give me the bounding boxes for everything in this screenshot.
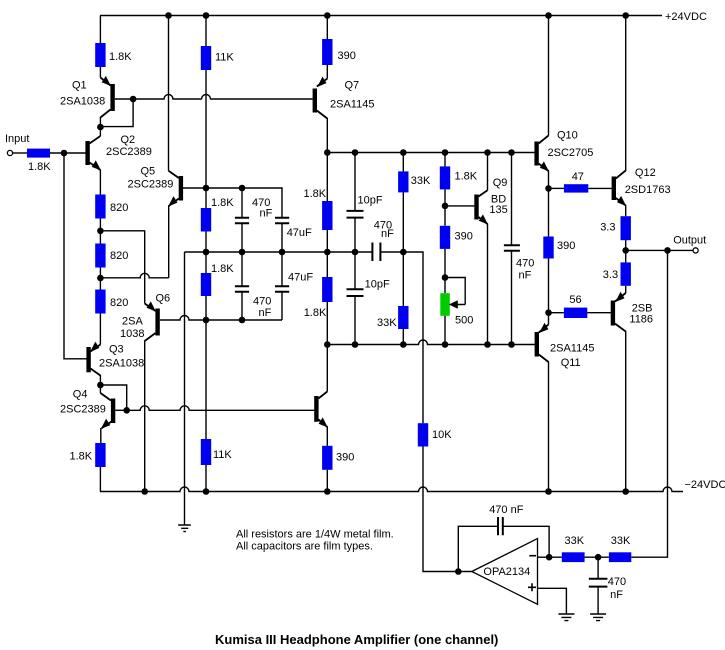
transistor Q9 base bar xyxy=(474,195,478,220)
op-amp U1 OPA2134 triangle xyxy=(472,539,538,605)
node Q1 base tie xyxy=(130,96,137,103)
node Q10 emitter xyxy=(545,185,552,192)
wire node to 56 resistor xyxy=(549,312,564,314)
wire Q6 collector to bottom rail xyxy=(144,341,146,492)
node y152 bus xyxy=(324,149,331,156)
capacitor 470nF lower: stem xyxy=(241,252,243,286)
potentiometer 500 body xyxy=(440,293,450,316)
capacitor 470nF (x511) bottom stem xyxy=(511,251,513,345)
resistor 390 (x445) xyxy=(440,226,450,249)
transistor 2SB1186 base bar xyxy=(611,301,615,326)
wire rail to Q12 collector xyxy=(625,16,627,172)
wire 820 to Q3 emitter xyxy=(99,314,101,345)
wire inverting input xyxy=(538,556,562,558)
svg-text:820: 820 xyxy=(110,297,128,309)
wire Q8 base line with hops xyxy=(127,406,315,411)
svg-text:1.8K: 1.8K xyxy=(211,197,234,209)
svg-text:33K: 33K xyxy=(411,175,431,187)
svg-text:390: 390 xyxy=(455,231,473,243)
svg-text:33K: 33K xyxy=(565,535,585,547)
transistor Q7 base bar xyxy=(313,89,317,113)
capacitor 10pF lower top stem xyxy=(354,252,356,289)
svg-text:10pF: 10pF xyxy=(358,195,383,207)
capacitor 470nF (x511) plates xyxy=(504,245,520,251)
wire 390 to Q7 emitter xyxy=(326,65,328,79)
node Q3 collector xyxy=(97,382,104,389)
wire 33K to mid bus xyxy=(402,192,404,306)
capacitor 470nF upper plates xyxy=(235,218,249,224)
svg-text:nF: nF xyxy=(519,270,532,282)
transistor Q12 emitter diagonal with arrow xyxy=(616,198,626,206)
wire to output node xyxy=(625,240,627,262)
svg-text:Q4: Q4 xyxy=(73,389,88,401)
resistor 11K bottom xyxy=(201,439,211,465)
resistor 33K feedback right xyxy=(609,552,631,562)
transistor Q11 base bar xyxy=(535,332,539,357)
wire rail to Q10 collector xyxy=(548,16,550,136)
wire bus to 33K upper xyxy=(402,153,404,172)
node mid bus y252 xyxy=(203,249,210,256)
resistor 1.8K mid lower (x327) xyxy=(322,277,332,302)
transistor Q5 2SC2389 collector diagonal xyxy=(169,171,179,178)
wire to bottom rail xyxy=(99,467,101,492)
svg-text:10K: 10K xyxy=(432,429,452,441)
transistor Q9 BD135 collector diagonal xyxy=(479,190,488,196)
resistor 1.8K mid upper (x327) xyxy=(322,201,332,230)
resistor 1.8K mid upper xyxy=(201,208,211,232)
svg-text:2SC2705: 2SC2705 xyxy=(548,147,594,159)
node y344 bus xyxy=(324,341,331,348)
transistor Q5 emitter diagonal with arrow xyxy=(169,199,179,207)
svg-text:Kumisa III Headphone Amplifier: Kumisa III Headphone Amplifier (one chan… xyxy=(215,632,498,647)
svg-text:1.8K: 1.8K xyxy=(455,171,478,183)
wire 3.3 to 2SB1186 emitter xyxy=(625,286,627,293)
svg-text:1.8K: 1.8K xyxy=(70,451,93,463)
wire bus to 1.8K (x445) xyxy=(444,153,446,167)
wire R to Q1 emitter xyxy=(99,67,101,78)
transistor Q8 2SC2705 collector diagonal xyxy=(318,392,327,399)
transistor Q5 base bar xyxy=(179,176,183,201)
capacitor 470nF feedback left stem xyxy=(458,526,497,571)
lower bus y=344.5 with hop over servo line xyxy=(327,340,535,345)
svg-text:33K: 33K xyxy=(377,317,397,329)
svg-text:Q3: Q3 xyxy=(109,344,124,356)
svg-text:2SC2389: 2SC2389 xyxy=(60,404,106,416)
svg-text:135: 135 xyxy=(489,204,507,216)
wire to lower bus xyxy=(402,329,404,345)
wire Q12 emitter to 3.3 xyxy=(625,205,627,216)
node pot top xyxy=(442,274,449,281)
svg-text:Q5: Q5 xyxy=(141,166,156,178)
transistor Q11 collector diagonal xyxy=(539,355,549,363)
wire Q4 base-collector tie xyxy=(100,385,126,410)
node 820 junction upper xyxy=(97,228,104,235)
wire 2SB1186 collector to rail xyxy=(625,331,627,492)
node Q4 base xyxy=(123,407,130,414)
svg-text:−24VDC: −24VDC xyxy=(685,479,725,491)
svg-text:1.8K: 1.8K xyxy=(304,307,327,319)
wire output node line xyxy=(626,249,693,251)
svg-text:2SA1038: 2SA1038 xyxy=(60,96,105,108)
resistor 56 xyxy=(564,308,587,318)
resistor 33K upper xyxy=(398,171,408,192)
transistor Q10 base bar xyxy=(534,142,538,166)
transistor Q12 2SD1763 base bar xyxy=(612,177,616,201)
wire input node xyxy=(50,152,86,154)
transistor Q1 emitter arrow xyxy=(102,76,111,86)
wire Q4 emitter down xyxy=(100,428,102,443)
capacitor 470nF lower bottom stem xyxy=(241,292,243,320)
transistor Q9 base lead xyxy=(445,205,474,207)
wire Q5 emitter return with hop xyxy=(100,273,168,278)
ground symbol opamp xyxy=(558,614,574,621)
svg-text:47uF: 47uF xyxy=(287,227,312,239)
capacitor 10pF lower plates xyxy=(347,289,364,296)
resistor 33K feedback left xyxy=(562,552,585,562)
svg-text:2SC2389: 2SC2389 xyxy=(106,146,152,158)
svg-text:Q2: Q2 xyxy=(121,134,136,146)
svg-text:Input: Input xyxy=(5,133,29,145)
wire output feedback drop xyxy=(631,250,667,557)
svg-text:Q7: Q7 xyxy=(345,80,360,92)
svg-text:3.3: 3.3 xyxy=(600,222,615,234)
capacitor 470nF shunt stem xyxy=(597,557,599,578)
capacitor 47uF lower top stem xyxy=(281,252,283,286)
wire 1.8K to 390 xyxy=(444,189,446,225)
svg-text:56: 56 xyxy=(569,294,581,306)
resistor 820 third xyxy=(95,290,105,314)
transistor Q9 emitter diagonal with arrow xyxy=(479,217,488,224)
wire node to 47 resistor xyxy=(549,187,564,189)
wire to rail xyxy=(326,470,328,492)
svg-text:All resistors are 1/4W metal f: All resistors are 1/4W metal film. xyxy=(236,529,394,541)
svg-text:2SD1763: 2SD1763 xyxy=(625,184,671,196)
transistor Q10 emitter diagonal with arrow xyxy=(539,164,549,172)
capacitor 470nF (x511) top stem xyxy=(511,153,513,245)
svg-text:+24VDC: +24VDC xyxy=(665,11,707,23)
capacitor 470nF feedback right stem xyxy=(503,526,549,557)
wire y188 node line xyxy=(183,188,282,217)
transistor Q4 base bar xyxy=(111,399,115,424)
capacitor 10pF upper stem xyxy=(354,153,356,211)
op-amp minus sign xyxy=(529,555,536,557)
transistor Q3 collector diagonal xyxy=(91,369,101,376)
transistor Q6 2SA1038 emitter arrow xyxy=(147,301,156,311)
node Q9 base xyxy=(442,203,449,210)
wire xyxy=(326,230,328,277)
svg-text:nF: nF xyxy=(260,208,273,220)
wire down to 11K bottom xyxy=(205,296,207,439)
svg-text:Q11: Q11 xyxy=(561,357,581,369)
svg-text:11K: 11K xyxy=(213,449,232,461)
svg-text:390: 390 xyxy=(557,240,575,252)
capacitor 10pF lower bottom stem xyxy=(354,296,356,345)
wire Q1 collector down xyxy=(99,117,101,127)
transistor Q2 emitter diagonal with arrow xyxy=(90,163,101,171)
wire Q5 emitter down xyxy=(168,206,170,278)
svg-text:1.8K: 1.8K xyxy=(211,263,234,275)
wire Q9 emitter down to lower bus xyxy=(487,224,489,345)
svg-text:nF: nF xyxy=(381,228,394,240)
transistor Q3 base bar xyxy=(86,347,90,372)
node 33K junction xyxy=(595,554,602,561)
node bottom rail junctions xyxy=(141,488,148,495)
wire Q1 base line to Q7 base with hops xyxy=(115,95,313,100)
wire 47 to Q12 base xyxy=(588,187,611,189)
resistor 33K lower xyxy=(398,306,408,329)
svg-text:1.8K: 1.8K xyxy=(304,188,327,200)
wire input node down to Q3 base xyxy=(64,153,87,359)
resistor 1.8K mid lower xyxy=(201,273,211,296)
transistor Q6 base bar xyxy=(155,309,159,336)
wire Q8 emitter down xyxy=(326,427,328,446)
wire bus to Q9 collector xyxy=(487,153,489,191)
svg-text:2SA1145: 2SA1145 xyxy=(330,99,374,111)
resistor 390 (x548) xyxy=(543,237,553,259)
svg-text:2SC2389: 2SC2389 xyxy=(128,179,174,191)
resistor 1.8K top-left xyxy=(95,43,105,67)
svg-text:820: 820 xyxy=(110,202,128,214)
resistor 820 first xyxy=(95,195,105,219)
resistor 1.8K (x445) xyxy=(440,166,450,189)
transistor 2SB1186 collector diagonal xyxy=(615,324,626,332)
transistor Q3 2SA1038 emitter diagonal with arrow xyxy=(91,345,101,352)
potentiometer 500 wiper loop xyxy=(445,278,465,305)
svg-text:Q10: Q10 xyxy=(557,130,578,142)
op-amp plus sign xyxy=(528,583,536,591)
wire node to 390 (x548) xyxy=(548,188,550,236)
capacitor 47uF lower bottom stem xyxy=(281,292,283,320)
capacitor 470nF shunt plates xyxy=(589,579,608,587)
transistor Q6 collector diagonal xyxy=(145,333,156,341)
svg-text:33K: 33K xyxy=(611,535,631,547)
wire down to Q8 collector xyxy=(326,302,328,392)
node opamp output xyxy=(455,568,462,575)
wire Q2 emitter down xyxy=(99,170,101,195)
transistor 2SB1186 emitter diagonal with arrow xyxy=(615,293,626,302)
wire to rail xyxy=(205,465,207,492)
output terminal xyxy=(693,248,698,253)
svg-text:Q6: Q6 xyxy=(156,293,171,305)
transistor Q1 collector diagonal xyxy=(100,110,110,118)
node input xyxy=(61,150,68,157)
resistor 10K servo xyxy=(418,423,428,446)
svg-text:nF: nF xyxy=(610,589,623,601)
+24VDC rail xyxy=(100,15,662,17)
resistor 47 xyxy=(564,184,588,192)
transistor Q1 2SA1038 emitter diagonal xyxy=(100,78,110,86)
svg-text:2SA1145: 2SA1145 xyxy=(550,343,594,355)
svg-text:1038: 1038 xyxy=(120,328,144,340)
resistor 390 top middle xyxy=(322,39,332,65)
wire rail to 11K xyxy=(205,16,207,47)
svg-text:500: 500 xyxy=(455,315,473,327)
svg-text:1.8K: 1.8K xyxy=(28,161,51,173)
node 56 junction xyxy=(545,309,552,316)
capacitor 470nF upper: stem xyxy=(241,188,243,217)
wire servo line down to opamp output xyxy=(423,447,472,572)
wire rail to 390 top middle xyxy=(326,16,328,40)
node output xyxy=(622,247,629,254)
wire Q7 collector down to bus xyxy=(326,118,328,201)
wire 390 to pot xyxy=(444,249,446,293)
svg-text:470: 470 xyxy=(253,296,271,308)
svg-text:390: 390 xyxy=(338,50,356,62)
resistor 390 bottom middle xyxy=(322,446,332,470)
svg-text:47uF: 47uF xyxy=(288,272,313,284)
wire Q3 collector down xyxy=(99,375,101,385)
node Q5 base row xyxy=(203,185,210,192)
ground symbol shunt cap xyxy=(590,614,606,621)
capacitor 470nF upper lower stem xyxy=(241,223,243,252)
potentiometer wiper arrow xyxy=(449,300,458,309)
transistor Q2 2SC2389 collector xyxy=(99,127,101,136)
resistor 3.3 lower xyxy=(621,262,631,285)
capacitor 47uF upper lower stem xyxy=(281,223,283,252)
capacitor 470nF series plates xyxy=(372,243,380,262)
wire upper signal bus y=152.5 xyxy=(327,152,534,154)
-24VDC rail xyxy=(100,487,683,492)
wire 11K to Q5 base node xyxy=(205,70,207,208)
capacitor 470nF shunt bottom stem xyxy=(597,587,599,614)
wire rail to Q5 collector xyxy=(168,16,170,171)
transistor Q8 base bar xyxy=(314,396,318,422)
capacitor 470nF lower plates xyxy=(235,286,249,292)
svg-text:nF: nF xyxy=(259,307,272,319)
resistor 11K top xyxy=(201,46,211,70)
svg-text:470: 470 xyxy=(608,576,626,588)
svg-text:820: 820 xyxy=(110,250,128,262)
svg-text:Q12: Q12 xyxy=(635,167,656,179)
resistor R input 1.8K xyxy=(27,149,50,158)
input terminal xyxy=(7,150,12,155)
transistor Q12 collector diagonal xyxy=(616,171,626,179)
svg-text:1.8K: 1.8K xyxy=(109,51,132,63)
transistor Q4 base lead xyxy=(115,409,127,411)
capacitor 470nF feedback plates xyxy=(498,517,503,535)
transistor Q2 base bar xyxy=(85,141,89,165)
svg-text:Output: Output xyxy=(673,235,706,247)
capacitor 47uF upper plates xyxy=(275,218,289,224)
wire Q10 emitter to node xyxy=(548,171,550,189)
svg-text:All capacitors are film types.: All capacitors are film types. xyxy=(236,541,373,553)
svg-text:470 nF: 470 nF xyxy=(489,504,524,516)
transistor Q7 2SA1145 emitter diagonal with arrow xyxy=(317,79,328,87)
transistor Q1 base bar xyxy=(110,84,114,111)
wire Q11 collector to rail xyxy=(548,362,550,492)
svg-text:47: 47 xyxy=(572,171,584,183)
wire branch to Q6 emitter xyxy=(100,231,144,304)
mid ground bus y=252 with series cap gap xyxy=(185,251,372,253)
transistor Q4 emitter diagonal with arrow xyxy=(102,421,114,429)
resistor 1.8K bottom-left xyxy=(95,443,105,467)
svg-text:10pF: 10pF xyxy=(365,279,390,291)
wire 56 to 2SB1186 base xyxy=(587,312,611,314)
wire 820 chain 2 xyxy=(99,268,101,290)
wire Q1 base-collector tie xyxy=(100,99,133,127)
transistor Q7 collector diagonal xyxy=(317,111,328,119)
wire mid bus right segment to servo line corner xyxy=(381,252,423,423)
svg-text:2SA: 2SA xyxy=(122,316,143,328)
svg-text:11K: 11K xyxy=(215,52,234,64)
svg-text:Q1: Q1 xyxy=(72,80,87,92)
svg-text:1186: 1186 xyxy=(629,314,653,326)
wire between 33K xyxy=(585,556,609,558)
capacitor 10pF upper bottom stem xyxy=(354,218,356,252)
wire Q6 base bus y320 with hop xyxy=(160,316,282,321)
node 820 junction lower xyxy=(97,275,104,282)
svg-text:470: 470 xyxy=(516,258,534,270)
capacitor 47uF lower plates xyxy=(275,286,289,292)
svg-text:2SA1038: 2SA1038 xyxy=(99,358,144,370)
ground symbol main xyxy=(178,525,191,532)
wire 820 chain xyxy=(99,219,101,244)
node top rail junctions xyxy=(165,12,172,19)
wire input to resistor xyxy=(13,152,27,154)
transistor Q11 2SA1145 emitter diagonal with arrow xyxy=(548,313,550,325)
wire xyxy=(205,232,207,274)
wire 390 to 56 node xyxy=(548,259,550,313)
transistor Q4 2SC2389 collector xyxy=(99,385,101,393)
svg-text:3.3: 3.3 xyxy=(603,269,618,281)
resistor 820 second xyxy=(95,244,105,268)
resistor 3.3 upper xyxy=(621,216,631,240)
svg-text:390: 390 xyxy=(336,452,354,464)
svg-text:OPA2134: OPA2134 xyxy=(483,566,530,578)
wire ground branch from mid bus xyxy=(184,252,186,525)
capacitor 10pF upper plates xyxy=(347,211,364,218)
transistor Q10 2SC2705 collector diagonal xyxy=(539,136,549,144)
transistor Q8 emitter diagonal with arrow xyxy=(318,420,327,428)
node opamp inverting xyxy=(546,554,553,561)
node Q1/Q2 collector xyxy=(97,124,104,131)
wire pot to lower bus xyxy=(444,316,446,345)
wire Q6 emitter diagonal xyxy=(145,304,156,312)
node y320 bus xyxy=(203,317,210,324)
svg-text:Q9: Q9 xyxy=(493,177,508,189)
wire rail to R1 xyxy=(99,16,101,44)
wire non-inverting input to ground xyxy=(538,588,567,613)
